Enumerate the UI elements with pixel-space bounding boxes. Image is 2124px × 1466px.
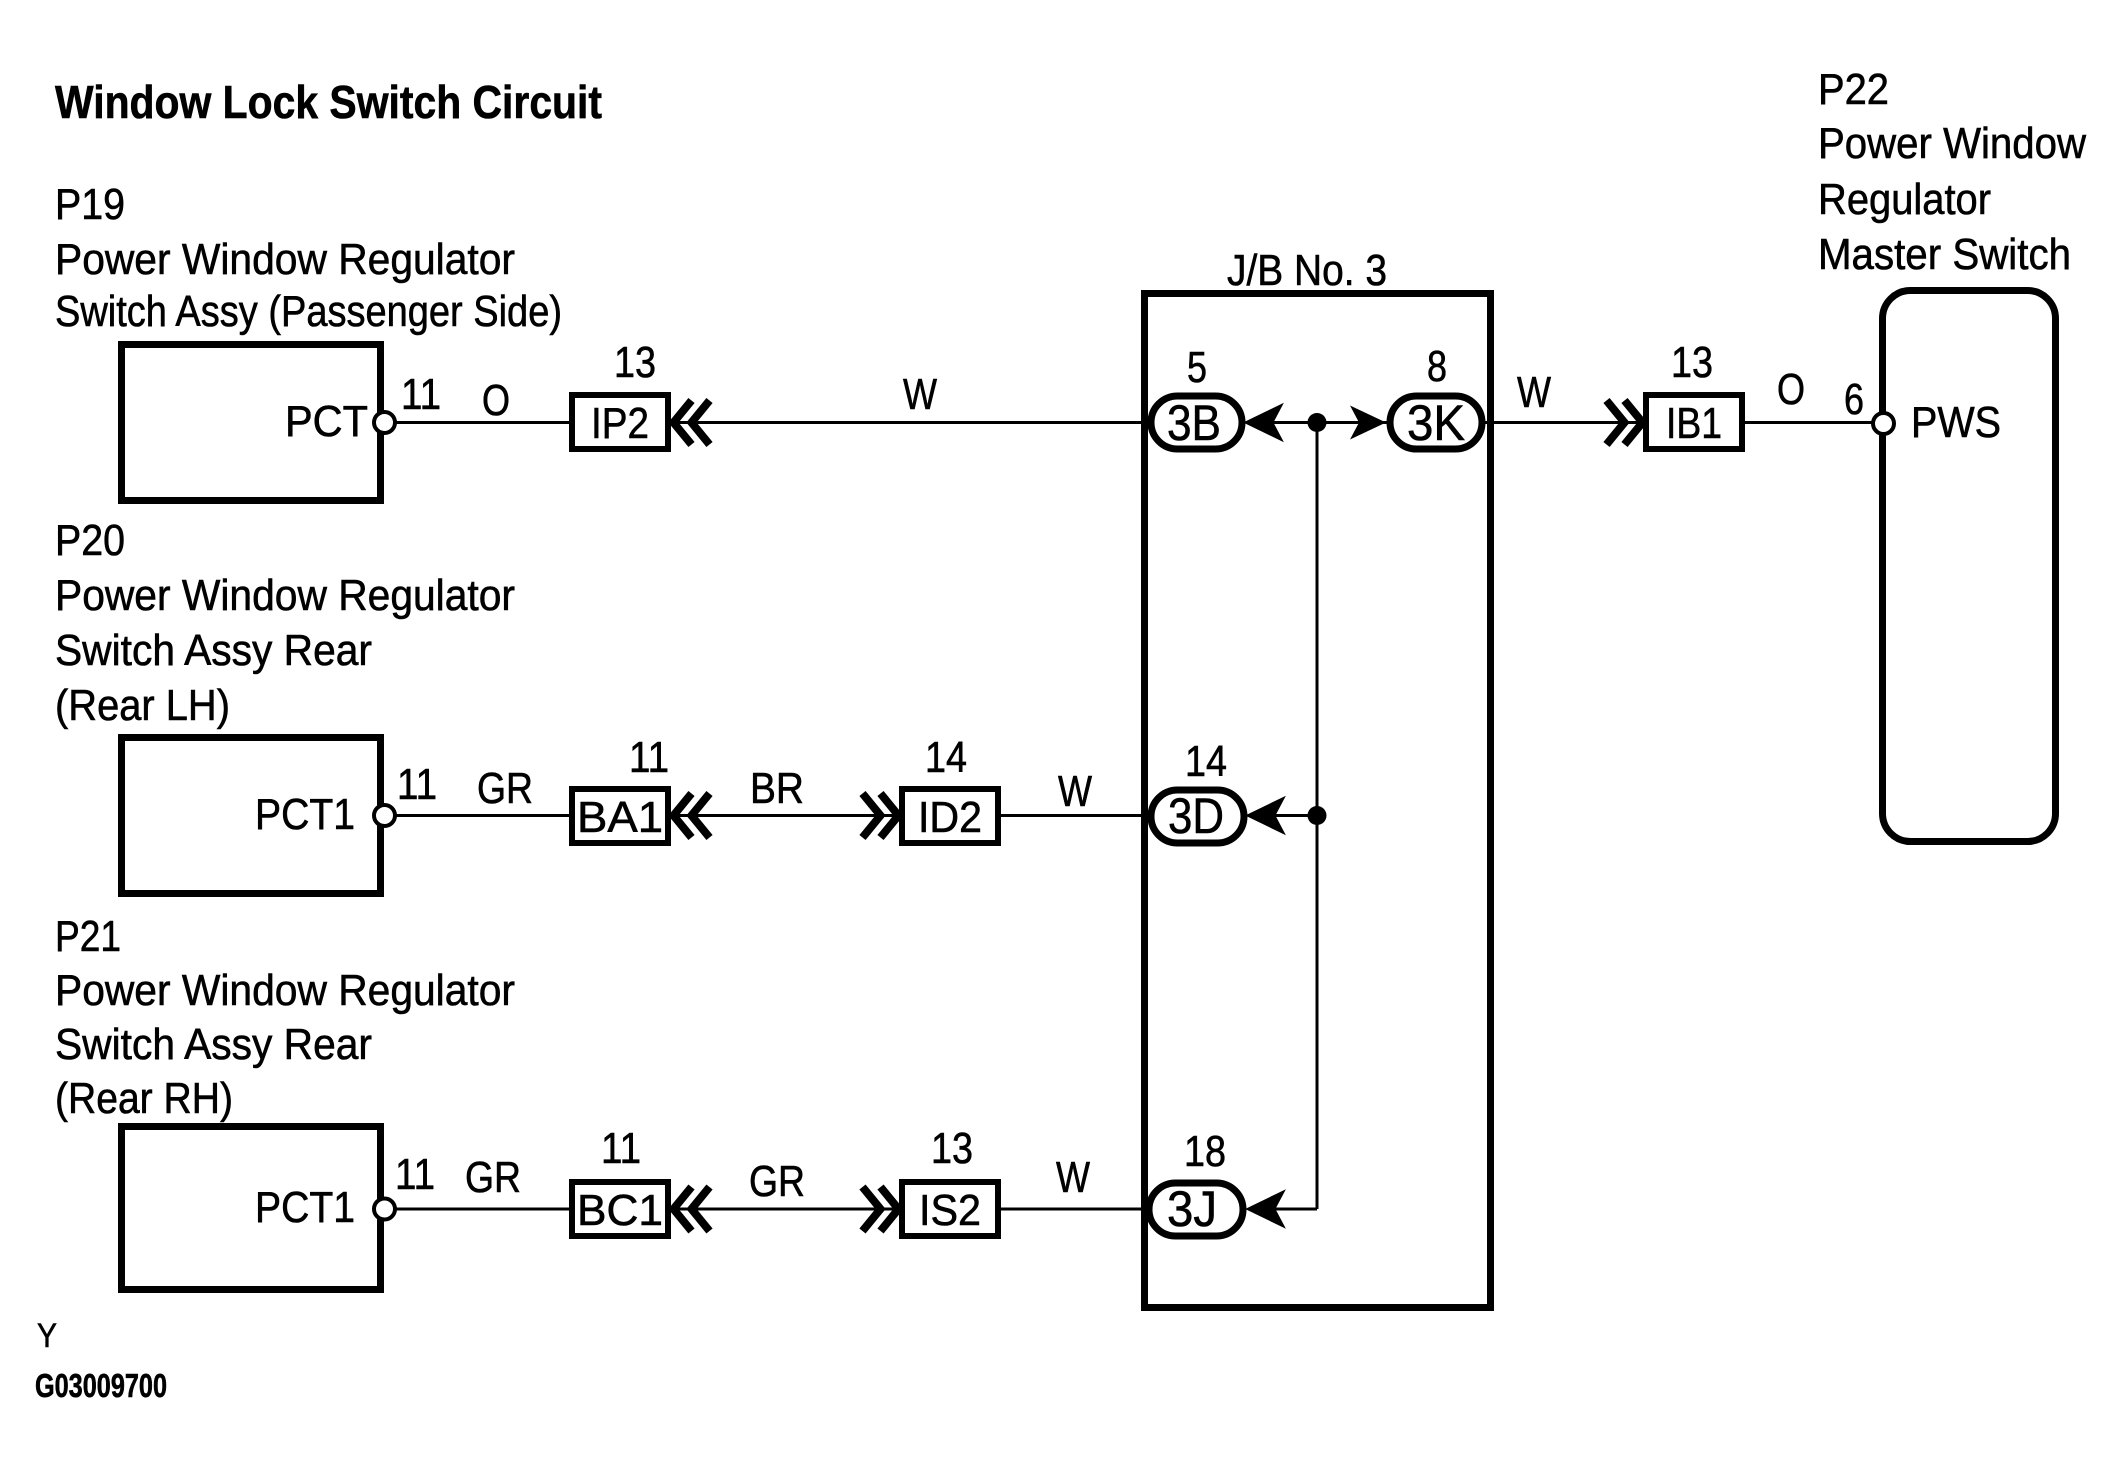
svg-text:6: 6 bbox=[1844, 375, 1864, 424]
svg-text:11: 11 bbox=[395, 1150, 435, 1199]
svg-text:Power Window: Power Window bbox=[1818, 119, 2086, 168]
svg-text:P21: P21 bbox=[55, 912, 121, 961]
svg-text:13: 13 bbox=[614, 338, 656, 387]
svg-text:IB1: IB1 bbox=[1666, 399, 1722, 448]
svg-text:O: O bbox=[1777, 365, 1805, 414]
svg-text:11: 11 bbox=[601, 1124, 641, 1173]
svg-text:13: 13 bbox=[1671, 338, 1713, 387]
svg-text:PWS: PWS bbox=[1911, 398, 2001, 447]
svg-text:J/B No. 3: J/B No. 3 bbox=[1227, 246, 1387, 295]
svg-text:3D: 3D bbox=[1168, 788, 1224, 844]
svg-text:P22: P22 bbox=[1818, 65, 1889, 114]
svg-text:PCT: PCT bbox=[285, 397, 368, 446]
svg-text:3J: 3J bbox=[1167, 1181, 1217, 1237]
svg-text:Switch Assy (Passenger Side): Switch Assy (Passenger Side) bbox=[55, 287, 562, 336]
svg-text:P19: P19 bbox=[55, 180, 125, 229]
svg-text:14: 14 bbox=[925, 733, 967, 782]
svg-text:W: W bbox=[1058, 767, 1092, 816]
svg-text:Power Window Regulator: Power Window Regulator bbox=[55, 571, 515, 620]
svg-text:IS2: IS2 bbox=[919, 1186, 981, 1235]
svg-text:W: W bbox=[1517, 368, 1551, 417]
svg-text:14: 14 bbox=[1185, 737, 1227, 786]
svg-text:Master Switch: Master Switch bbox=[1818, 230, 2071, 279]
svg-text:3B: 3B bbox=[1167, 395, 1221, 451]
svg-text:O: O bbox=[482, 376, 510, 425]
svg-text:11: 11 bbox=[397, 760, 437, 809]
svg-text:BA1: BA1 bbox=[577, 793, 663, 842]
svg-text:GR: GR bbox=[477, 764, 533, 813]
svg-text:11: 11 bbox=[629, 733, 669, 782]
svg-text:(Rear LH): (Rear LH) bbox=[55, 681, 230, 730]
svg-text:ID2: ID2 bbox=[918, 793, 982, 842]
svg-text:Power Window Regulator: Power Window Regulator bbox=[55, 235, 515, 284]
svg-text:Window Lock Switch Circuit: Window Lock Switch Circuit bbox=[55, 76, 602, 128]
svg-text:(Rear RH): (Rear RH) bbox=[55, 1074, 233, 1123]
svg-text:W: W bbox=[903, 370, 937, 419]
svg-text:8: 8 bbox=[1427, 342, 1447, 391]
svg-text:W: W bbox=[1056, 1153, 1090, 1202]
svg-text:Regulator: Regulator bbox=[1818, 175, 1991, 224]
svg-text:P20: P20 bbox=[55, 516, 125, 565]
svg-text:Switch Assy Rear: Switch Assy Rear bbox=[55, 626, 372, 675]
svg-text:PCT1: PCT1 bbox=[255, 1183, 355, 1232]
svg-text:BR: BR bbox=[750, 764, 804, 813]
svg-text:GR: GR bbox=[749, 1157, 805, 1206]
svg-text:Power Window Regulator: Power Window Regulator bbox=[55, 966, 515, 1015]
svg-text:IP2: IP2 bbox=[591, 399, 649, 448]
svg-text:13: 13 bbox=[931, 1124, 973, 1173]
svg-text:3K: 3K bbox=[1407, 395, 1465, 451]
svg-text:Switch Assy Rear: Switch Assy Rear bbox=[55, 1020, 372, 1069]
svg-text:5: 5 bbox=[1187, 343, 1207, 392]
svg-text:G03009700: G03009700 bbox=[35, 1367, 167, 1404]
svg-text:18: 18 bbox=[1184, 1127, 1226, 1176]
svg-text:PCT1: PCT1 bbox=[255, 790, 355, 839]
svg-text:Y: Y bbox=[37, 1317, 57, 1355]
svg-text:GR: GR bbox=[465, 1153, 521, 1202]
svg-text:BC1: BC1 bbox=[577, 1186, 663, 1235]
svg-text:11: 11 bbox=[401, 370, 441, 419]
